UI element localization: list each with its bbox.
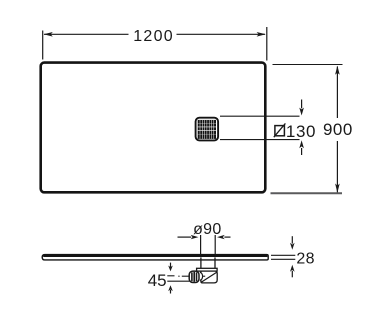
- dimension 1200 extension line left: [42, 31, 44, 60]
- dimension 1200 arrow left: [44, 32, 53, 37]
- dimension 900 arrow down: [335, 184, 340, 193]
- trap body: [201, 271, 217, 283]
- dimension 1200 extension line right: [266, 27, 268, 61]
- dimension 28 arrow down: [291, 236, 293, 243]
- dimension d130 extension line top: [220, 115, 300, 117]
- dimension 45 arrow down: [170, 263, 172, 267]
- drain pipe lines through tray: [200, 235, 202, 255]
- dimension 900 line: [336, 67, 338, 119]
- dimension 1200 arrow right: [257, 32, 266, 37]
- trap bottom witness line: [167, 280, 189, 282]
- dimension 1200 line: [44, 33, 129, 35]
- dimension d90 arrow right: [224, 236, 230, 238]
- tray side view profile: [42, 255, 268, 260]
- trap miter diagonal: [202, 272, 217, 282]
- svg-text:45: 45: [148, 271, 167, 290]
- trap outlet nut: [189, 271, 199, 282]
- tray outline plan view: [41, 63, 266, 193]
- dimension d130 extension line bottom: [220, 139, 300, 141]
- dimension 28 arrow up: [291, 271, 293, 278]
- trap flange: [197, 268, 218, 271]
- svg-text:130: 130: [286, 122, 316, 141]
- dimension 900 extension line top: [273, 64, 343, 66]
- dimension 28 witness line top: [271, 254, 295, 256]
- dimension 900 extension line bottom (gray): [271, 192, 343, 194]
- svg-text:1200: 1200: [133, 28, 174, 45]
- dimension 45 arrow up: [170, 290, 172, 294]
- svg-text:900: 900: [323, 120, 353, 139]
- trap outlet pipe arc: [200, 272, 203, 280]
- dimension d90 arrow left: [178, 236, 192, 238]
- dimension 900 arrow up: [335, 66, 340, 75]
- drain grate square: [196, 118, 219, 141]
- dimension d130 arrow up: [301, 148, 303, 155]
- dimension d130 arrow down: [301, 100, 303, 109]
- trap centerline dash-dot: [167, 275, 174, 277]
- dimension 28 witness line bottom: [271, 258, 295, 260]
- svg-text:ø90: ø90: [193, 221, 221, 238]
- svg-text:28: 28: [296, 251, 314, 268]
- diameter symbol of d130: [274, 123, 286, 137]
